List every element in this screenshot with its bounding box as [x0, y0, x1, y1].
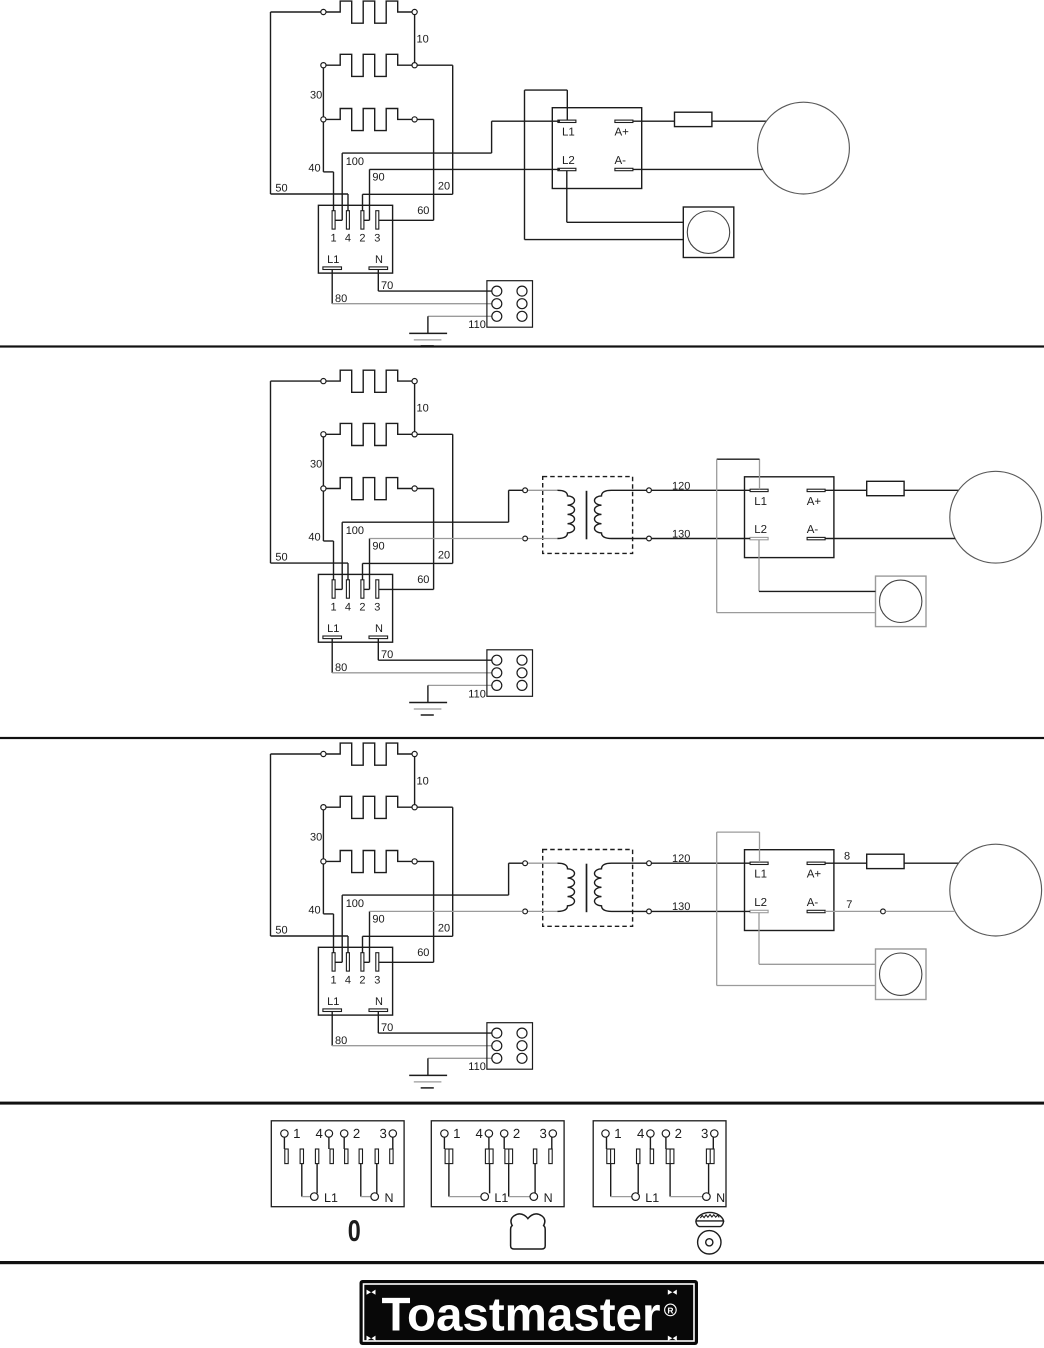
svg-text:1: 1: [331, 602, 337, 614]
svg-text:40: 40: [308, 532, 320, 544]
svg-text:2: 2: [359, 975, 365, 987]
svg-text:80: 80: [335, 1035, 347, 1047]
svg-text:L1: L1: [494, 1191, 508, 1205]
svg-text:8: 8: [844, 851, 850, 863]
svg-text:30: 30: [310, 90, 322, 102]
svg-text:130: 130: [672, 901, 690, 913]
svg-text:L1: L1: [327, 254, 339, 266]
svg-text:20: 20: [438, 181, 450, 193]
svg-text:50: 50: [275, 182, 287, 194]
svg-text:L1: L1: [754, 496, 767, 508]
svg-text:4: 4: [345, 233, 351, 245]
svg-text:A+: A+: [807, 496, 822, 508]
svg-text:1: 1: [331, 233, 337, 245]
svg-text:2: 2: [353, 1126, 360, 1141]
svg-text:0: 0: [348, 1215, 361, 1248]
svg-text:2: 2: [675, 1126, 682, 1141]
svg-text:L1: L1: [562, 127, 575, 139]
svg-text:50: 50: [275, 551, 287, 563]
svg-text:60: 60: [417, 205, 429, 217]
svg-text:L1: L1: [327, 623, 339, 635]
svg-text:4: 4: [345, 975, 351, 987]
svg-text:3: 3: [701, 1126, 708, 1141]
svg-text:60: 60: [417, 947, 429, 959]
svg-text:4: 4: [316, 1126, 323, 1141]
svg-text:40: 40: [308, 905, 320, 917]
svg-text:30: 30: [310, 459, 322, 471]
svg-text:N: N: [716, 1191, 725, 1205]
svg-text:A-: A-: [807, 897, 819, 909]
svg-text:90: 90: [372, 540, 384, 552]
svg-text:A+: A+: [807, 869, 822, 881]
svg-text:10: 10: [417, 33, 429, 45]
svg-text:100: 100: [346, 525, 364, 537]
svg-text:Toastmaster: Toastmaster: [382, 1289, 661, 1342]
svg-text:R: R: [667, 1305, 673, 1315]
svg-text:4: 4: [476, 1126, 483, 1141]
svg-text:70: 70: [381, 1022, 393, 1034]
svg-text:110: 110: [468, 688, 486, 700]
svg-text:A+: A+: [615, 127, 630, 139]
svg-text:90: 90: [372, 171, 384, 183]
svg-text:10: 10: [417, 403, 429, 415]
svg-text:L1: L1: [645, 1191, 659, 1205]
svg-text:3: 3: [374, 975, 380, 987]
svg-text:80: 80: [335, 662, 347, 674]
svg-text:60: 60: [417, 574, 429, 586]
svg-text:2: 2: [513, 1126, 520, 1141]
svg-text:3: 3: [374, 233, 380, 245]
svg-text:N: N: [544, 1191, 553, 1205]
svg-text:40: 40: [308, 163, 320, 175]
svg-text:3: 3: [539, 1126, 546, 1141]
svg-text:4: 4: [345, 602, 351, 614]
svg-text:50: 50: [275, 924, 287, 936]
svg-text:120: 120: [672, 853, 690, 865]
svg-text:1: 1: [331, 975, 337, 987]
svg-text:20: 20: [438, 550, 450, 562]
svg-text:L1: L1: [327, 996, 339, 1008]
svg-text:90: 90: [372, 913, 384, 925]
svg-text:1: 1: [293, 1126, 300, 1141]
svg-text:110: 110: [468, 1061, 486, 1073]
svg-text:100: 100: [346, 898, 364, 910]
svg-text:L1: L1: [754, 869, 767, 881]
svg-text:70: 70: [381, 649, 393, 661]
svg-text:7: 7: [846, 899, 852, 911]
svg-text:70: 70: [381, 280, 393, 292]
svg-text:4: 4: [637, 1126, 644, 1141]
svg-text:1: 1: [614, 1126, 621, 1141]
svg-text:L2: L2: [562, 155, 575, 167]
svg-text:20: 20: [438, 923, 450, 935]
svg-text:N: N: [385, 1191, 394, 1205]
svg-text:1: 1: [453, 1126, 460, 1141]
svg-text:A-: A-: [807, 524, 819, 536]
svg-text:80: 80: [335, 293, 347, 305]
svg-text:10: 10: [417, 775, 429, 787]
svg-text:100: 100: [346, 156, 364, 168]
svg-text:N: N: [375, 996, 383, 1008]
svg-text:110: 110: [468, 319, 486, 331]
svg-text:2: 2: [359, 602, 365, 614]
svg-text:N: N: [375, 623, 383, 635]
svg-text:120: 120: [672, 480, 690, 492]
svg-text:L1: L1: [324, 1191, 338, 1205]
svg-text:L2: L2: [754, 524, 767, 536]
svg-text:130: 130: [672, 528, 690, 540]
svg-text:3: 3: [374, 602, 380, 614]
svg-text:N: N: [375, 254, 383, 266]
svg-text:30: 30: [310, 832, 322, 844]
svg-text:L2: L2: [754, 897, 767, 909]
svg-text:3: 3: [379, 1126, 386, 1141]
svg-text:A-: A-: [615, 155, 627, 167]
svg-text:2: 2: [359, 233, 365, 245]
